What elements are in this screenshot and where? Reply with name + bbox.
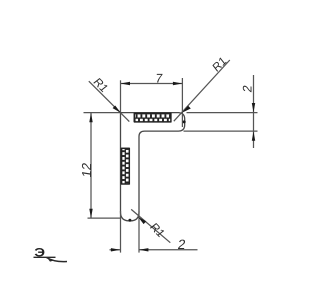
dimension 12: dimension line (90, 113, 92, 219)
barb (47, 257, 54, 261)
dim 12 top arrow (89, 113, 92, 123)
dim 12 bottom arrow (89, 209, 92, 219)
bottom-left marker symbol (34, 246, 68, 262)
leader R1 top-right (174, 60, 230, 121)
leader R1 top-left (89, 81, 130, 121)
dimension 12: extension lines (84, 112, 121, 114)
leader arrow top-right R1 (182, 106, 191, 113)
leader dot on arm end cap (183, 120, 186, 123)
dim 2 bottom left arrow (points right) (111, 248, 121, 251)
svg-text:12: 12 (79, 162, 94, 179)
dim 2 bottom right arrow (points left) (139, 248, 149, 251)
dimension 2 right: extension lines (187, 112, 258, 114)
underline (34, 256, 56, 258)
leader arrow bottom R1 (138, 217, 146, 224)
svg-text:R1: R1 (90, 77, 110, 95)
hatch insert block in top arm (134, 113, 172, 122)
dim 2 right upper arrow (points down) (252, 103, 255, 113)
dimension 2 bottom: dimension line segments (110, 249, 121, 251)
dimension 2 bottom: extension lines (120, 211, 122, 253)
dimension 7: extension lines (120, 80, 122, 112)
profile outline of L-angle section (121, 113, 185, 221)
dimension 7: dimension line (121, 83, 183, 85)
dim 7 right arrow (173, 82, 183, 85)
hatch insert block in left leg (121, 148, 130, 185)
svg-text:R1: R1 (211, 55, 229, 75)
svg-text:2: 2 (240, 84, 254, 93)
dim 7 left arrow (121, 82, 131, 85)
dimension 2 right: dimension line (253, 75, 255, 148)
leader R1 bottom (131, 209, 170, 242)
leader dot on leg end cap (128, 219, 131, 222)
dim 2 right lower arrow (points up) (252, 131, 255, 141)
curved tail (47, 258, 68, 262)
dimension texts (79, 55, 254, 252)
leader arrow top-left R1 (113, 106, 121, 113)
arrowheads (89, 82, 255, 252)
